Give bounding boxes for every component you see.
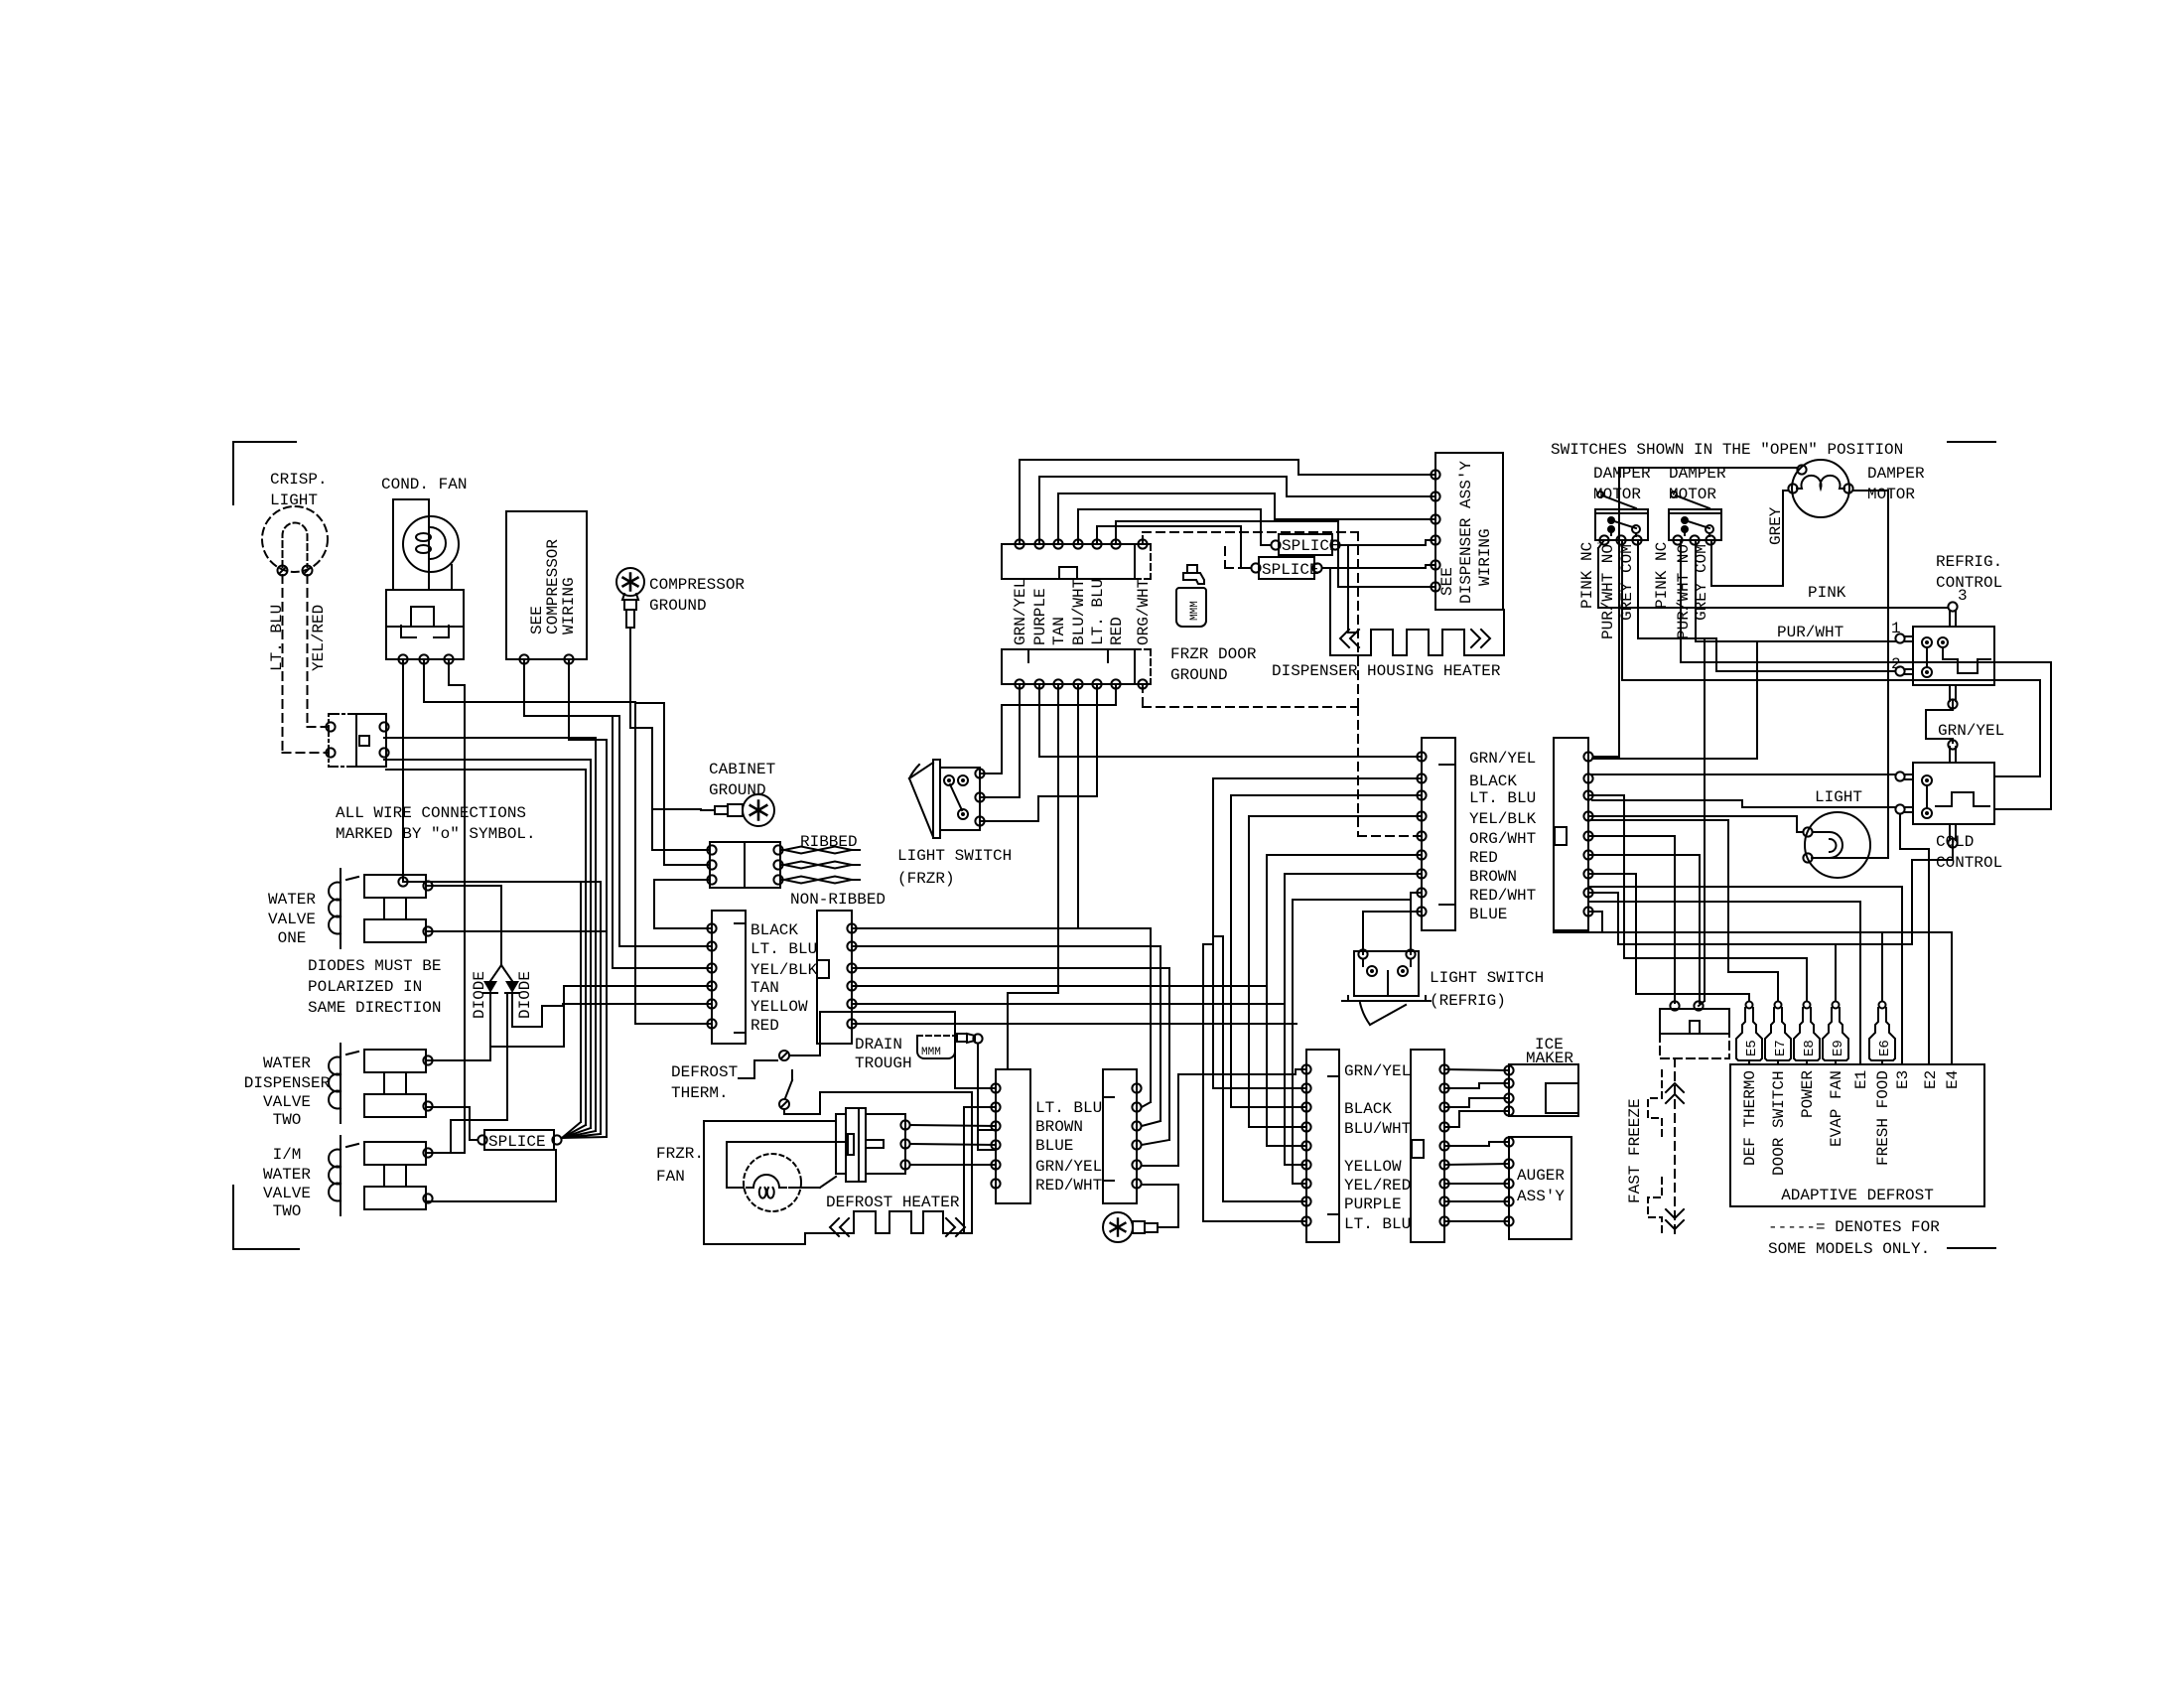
svg-text:SPLICE: SPLICE (1282, 537, 1339, 555)
svg-text:DEFROST HEATER: DEFROST HEATER (826, 1194, 960, 1211)
svg-text:FAST FREEZE: FAST FREEZE (1626, 1098, 1644, 1203)
svg-text:CRISP.: CRISP. (270, 471, 328, 489)
svg-text:GROUND: GROUND (649, 597, 707, 615)
svg-text:WATER: WATER (263, 1055, 311, 1072)
svg-text:MMM: MMM (921, 1047, 941, 1058)
svg-text:PINK NC: PINK NC (1578, 542, 1596, 609)
svg-text:THERM.: THERM. (671, 1084, 729, 1102)
svg-text:-----= DENOTES FOR: -----= DENOTES FOR (1768, 1218, 1940, 1236)
svg-text:BROWN: BROWN (1469, 868, 1517, 886)
svg-text:LIGHT SWITCH: LIGHT SWITCH (897, 847, 1012, 865)
svg-text:I/M: I/M (273, 1146, 302, 1164)
svg-text:TWO: TWO (273, 1202, 302, 1220)
svg-text:YELLOW: YELLOW (751, 998, 808, 1016)
svg-text:ORG/WHT: ORG/WHT (1135, 579, 1153, 645)
svg-text:DOOR SWITCH: DOOR SWITCH (1770, 1070, 1788, 1176)
svg-text:SWITCHES SHOWN IN THE "OPEN" P: SWITCHES SHOWN IN THE "OPEN" POSITION (1551, 441, 1903, 459)
svg-text:NON-RIBBED: NON-RIBBED (790, 891, 886, 909)
svg-text:MOTOR: MOTOR (1867, 486, 1915, 503)
svg-text:BLACK: BLACK (1344, 1100, 1392, 1118)
svg-text:DISPENSER: DISPENSER (244, 1074, 331, 1092)
svg-text:DRAIN: DRAIN (855, 1036, 902, 1054)
svg-text:DIODES MUST BE: DIODES MUST BE (308, 957, 441, 975)
svg-text:LIGHT: LIGHT (1815, 788, 1862, 806)
svg-text:E4: E4 (1944, 1070, 1962, 1089)
svg-text:COMPRESSOR: COMPRESSOR (649, 576, 745, 594)
svg-text:SPLICE: SPLICE (1262, 561, 1319, 579)
svg-text:MAKER: MAKER (1526, 1050, 1573, 1067)
svg-text:GROUND: GROUND (709, 781, 766, 799)
svg-text:SEE: SEE (1438, 567, 1456, 596)
svg-text:PINK NC: PINK NC (1653, 542, 1671, 609)
svg-text:(REFRIG): (REFRIG) (1430, 992, 1506, 1010)
svg-text:BLU/WHT: BLU/WHT (1070, 579, 1088, 645)
svg-text:POWER: POWER (1799, 1070, 1817, 1118)
svg-text:VALVE: VALVE (263, 1093, 311, 1111)
svg-text:RED: RED (1108, 617, 1126, 645)
svg-text:ADAPTIVE DEFROST: ADAPTIVE DEFROST (1781, 1187, 1934, 1204)
svg-text:BROWN: BROWN (1035, 1118, 1083, 1136)
svg-text:GRN/YEL: GRN/YEL (1035, 1158, 1102, 1176)
svg-text:YEL/RED: YEL/RED (1344, 1177, 1411, 1195)
svg-text:YELLOW: YELLOW (1344, 1158, 1402, 1176)
svg-text:RIBBED: RIBBED (800, 833, 858, 851)
svg-text:RED/WHT: RED/WHT (1469, 887, 1536, 905)
svg-text:DAMPER: DAMPER (1867, 465, 1925, 483)
svg-text:FRZR.: FRZR. (656, 1145, 704, 1163)
svg-text:MOTOR: MOTOR (1669, 486, 1716, 503)
svg-text:VALVE: VALVE (263, 1185, 311, 1202)
svg-text:CABINET: CABINET (709, 761, 775, 778)
svg-text:LIGHT SWITCH: LIGHT SWITCH (1430, 969, 1544, 987)
svg-text:BLACK: BLACK (1469, 773, 1517, 790)
svg-text:CONTROL: CONTROL (1936, 574, 2002, 592)
svg-text:CONTROL: CONTROL (1936, 854, 2002, 872)
svg-text:GREY: GREY (1767, 506, 1785, 545)
svg-text:(FRZR): (FRZR) (897, 870, 955, 888)
svg-text:PUR/WHT: PUR/WHT (1777, 624, 1843, 641)
svg-text:3: 3 (1958, 587, 1968, 605)
svg-text:MOTOR: MOTOR (1593, 486, 1641, 503)
svg-text:GRN/YEL: GRN/YEL (1469, 750, 1536, 768)
svg-text:DIODE: DIODE (516, 971, 534, 1019)
svg-text:RED: RED (751, 1017, 779, 1035)
svg-text:DIODE: DIODE (471, 971, 488, 1019)
svg-text:E1: E1 (1852, 1070, 1870, 1089)
svg-text:LT. BLU: LT. BLU (1344, 1215, 1411, 1233)
svg-text:GROUND: GROUND (1170, 666, 1228, 684)
svg-text:TAN: TAN (751, 979, 779, 997)
svg-text:WIRING: WIRING (1476, 528, 1494, 586)
svg-text:PUR/WHT NO: PUR/WHT NO (1675, 544, 1693, 639)
svg-text:E9: E9 (1831, 1040, 1846, 1056)
svg-text:E7: E7 (1773, 1040, 1789, 1056)
svg-text:DAMPER: DAMPER (1593, 465, 1651, 483)
svg-text:PUR/WHT NO: PUR/WHT NO (1599, 544, 1617, 639)
svg-text:LT. BLU: LT. BLU (751, 940, 817, 958)
svg-text:LT. BLU: LT. BLU (1469, 789, 1536, 807)
svg-text:SPLICE: SPLICE (488, 1133, 546, 1151)
svg-text:RED/WHT: RED/WHT (1035, 1177, 1102, 1195)
svg-text:PURPLE: PURPLE (1344, 1196, 1402, 1213)
svg-text:E6: E6 (1877, 1040, 1893, 1056)
svg-text:AUGER: AUGER (1517, 1167, 1565, 1185)
svg-text:LT. BLU: LT. BLU (1035, 1099, 1102, 1117)
svg-text:E2: E2 (1922, 1070, 1940, 1089)
svg-text:BLU/WHT: BLU/WHT (1344, 1120, 1411, 1138)
svg-text:YEL/BLK: YEL/BLK (1469, 810, 1537, 828)
svg-text:GRN/YEL: GRN/YEL (1344, 1062, 1411, 1080)
svg-text:E8: E8 (1802, 1040, 1818, 1056)
svg-text:WATER: WATER (268, 891, 316, 909)
svg-text:GRN/YEL: GRN/YEL (1012, 579, 1029, 645)
svg-text:PINK: PINK (1808, 584, 1846, 602)
svg-text:COND. FAN: COND. FAN (381, 476, 467, 493)
svg-text:DISPENSER HOUSING HEATER: DISPENSER HOUSING HEATER (1272, 662, 1501, 680)
svg-text:GREY COM: GREY COM (1618, 544, 1636, 621)
svg-text:BLUE: BLUE (1035, 1137, 1073, 1155)
svg-text:MARKED BY "o" SYMBOL.: MARKED BY "o" SYMBOL. (336, 825, 536, 843)
svg-text:LIGHT: LIGHT (270, 492, 318, 509)
svg-text:WIRING: WIRING (560, 577, 578, 634)
svg-text:POLARIZED IN: POLARIZED IN (308, 978, 422, 996)
svg-text:ORG/WHT: ORG/WHT (1469, 830, 1536, 848)
svg-text:YEL/RED: YEL/RED (310, 605, 328, 671)
svg-text:TAN: TAN (1050, 617, 1068, 645)
svg-text:LT. BLU: LT. BLU (268, 605, 286, 671)
svg-text:FRZR DOOR: FRZR DOOR (1170, 645, 1257, 663)
svg-text:GRN/YEL: GRN/YEL (1938, 722, 2004, 740)
svg-text:2: 2 (1891, 655, 1901, 673)
svg-text:1: 1 (1891, 620, 1901, 637)
svg-text:EVAP FAN: EVAP FAN (1828, 1070, 1845, 1147)
svg-text:E3: E3 (1894, 1070, 1912, 1089)
svg-text:DAMPER: DAMPER (1669, 465, 1726, 483)
svg-text:BLACK: BLACK (751, 921, 798, 939)
svg-text:E5: E5 (1744, 1040, 1760, 1056)
svg-text:BLUE: BLUE (1469, 906, 1507, 923)
svg-text:RED: RED (1469, 849, 1498, 867)
svg-text:YEL/BLK: YEL/BLK (751, 961, 818, 979)
svg-text:DEF THERMO: DEF THERMO (1741, 1070, 1759, 1166)
svg-text:TROUGH: TROUGH (855, 1055, 912, 1072)
svg-text:DISPENSER ASS'Y: DISPENSER ASS'Y (1457, 461, 1475, 604)
svg-text:GREY COM: GREY COM (1693, 544, 1710, 621)
svg-text:SAME DIRECTION: SAME DIRECTION (308, 999, 441, 1017)
svg-text:FAN: FAN (656, 1168, 685, 1186)
svg-text:MMM: MMM (1189, 601, 1201, 621)
svg-text:ALL WIRE CONNECTIONS: ALL WIRE CONNECTIONS (336, 804, 526, 822)
svg-text:ONE: ONE (278, 929, 307, 947)
svg-text:PURPLE: PURPLE (1031, 588, 1049, 645)
svg-text:TWO: TWO (273, 1111, 302, 1129)
svg-text:DEFROST: DEFROST (671, 1063, 738, 1081)
svg-text:FRESH FOOD: FRESH FOOD (1874, 1070, 1892, 1166)
svg-text:WATER: WATER (263, 1166, 311, 1184)
svg-text:REFRIG.: REFRIG. (1936, 553, 2002, 571)
svg-text:COLD: COLD (1936, 833, 1974, 851)
svg-text:ASS'Y: ASS'Y (1517, 1188, 1565, 1205)
svg-text:LT. BLU: LT. BLU (1089, 579, 1107, 645)
svg-text:VALVE: VALVE (268, 911, 316, 928)
svg-text:SOME MODELS ONLY.: SOME MODELS ONLY. (1768, 1240, 1930, 1258)
